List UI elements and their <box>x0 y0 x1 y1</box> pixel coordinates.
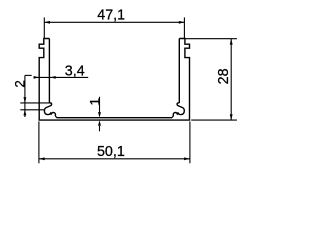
right wall inner edge <box>178 39 180 103</box>
arrows 28 <box>230 39 233 45</box>
arrows 1 <box>98 112 101 118</box>
channel floor <box>57 117 172 119</box>
svg-text:28: 28 <box>216 68 232 84</box>
dim 1 line lower tail <box>99 126 101 132</box>
dim 2 extension lines <box>20 102 51 104</box>
dim 50,1 line <box>39 158 190 160</box>
dim 1 line upper <box>99 97 101 113</box>
svg-text:50,1: 50,1 <box>97 144 125 160</box>
arrows 47,1 <box>44 21 50 24</box>
arrows 50,1 <box>39 157 45 160</box>
dim 47,1 line <box>44 21 184 23</box>
dim 28 line <box>230 39 232 120</box>
svg-text:47,1: 47,1 <box>97 8 125 24</box>
dim 47,1 extension lines <box>43 17 45 38</box>
arrows 3,4 <box>34 76 40 79</box>
dim 28 extension lines <box>185 38 237 40</box>
left screw port <box>44 103 57 118</box>
arrows 2 <box>23 97 26 103</box>
dim 50,1 extension lines <box>38 121 40 163</box>
dim 3,4 line <box>34 76 89 78</box>
svg-text:1: 1 <box>87 98 103 106</box>
dim 2 line + tick <box>24 75 26 117</box>
svg-text:2: 2 <box>13 80 28 88</box>
profile outer outline <box>39 39 189 121</box>
right screw port <box>172 103 185 118</box>
left wall inner edge <box>48 39 50 103</box>
svg-text:3,4: 3,4 <box>65 63 85 79</box>
